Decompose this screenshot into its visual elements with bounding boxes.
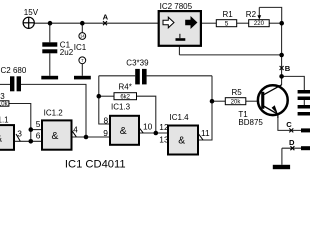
svg-text:2u2: 2u2	[60, 48, 74, 57]
svg-text:C2 680: C2 680	[1, 66, 27, 75]
svg-text:R5: R5	[232, 88, 243, 97]
svg-text:5: 5	[225, 20, 229, 27]
svg-text:&: &	[0, 133, 2, 144]
svg-text:A: A	[103, 13, 109, 22]
svg-text:10k: 10k	[0, 101, 9, 107]
svg-text:C: C	[286, 120, 292, 129]
svg-text:12: 12	[159, 122, 169, 132]
svg-text:13: 13	[159, 134, 169, 144]
svg-text:IC1.4: IC1.4	[170, 113, 190, 122]
svg-text:14: 14	[80, 34, 85, 39]
svg-text:&: &	[178, 136, 185, 147]
svg-text:10: 10	[143, 121, 153, 131]
svg-text:6: 6	[36, 131, 41, 141]
svg-text:9: 9	[103, 128, 108, 138]
svg-text:IC1: IC1	[74, 43, 87, 52]
svg-text:15V: 15V	[24, 8, 39, 17]
svg-text:D: D	[289, 138, 295, 147]
svg-text:220: 220	[254, 21, 265, 27]
svg-text:&: &	[52, 131, 59, 142]
svg-text:IC1.1: IC1.1	[0, 116, 9, 125]
svg-text:IC1.2: IC1.2	[44, 109, 64, 118]
svg-text:20k: 20k	[231, 99, 242, 105]
svg-text:6k2: 6k2	[120, 94, 130, 100]
svg-text:IC2 7805: IC2 7805	[160, 2, 193, 11]
svg-text:IC1.3: IC1.3	[111, 103, 131, 112]
svg-text:IC1 CD4011: IC1 CD4011	[65, 159, 126, 171]
svg-text:BD875: BD875	[238, 118, 263, 127]
svg-text:R1: R1	[223, 10, 234, 19]
svg-text:8: 8	[104, 115, 109, 125]
svg-text:5: 5	[36, 119, 41, 129]
svg-text:R3: R3	[0, 92, 5, 101]
svg-text:R2: R2	[246, 10, 257, 19]
svg-text:11: 11	[201, 128, 210, 138]
svg-text:&: &	[120, 126, 127, 137]
svg-text:B: B	[285, 64, 291, 73]
svg-text:R4*: R4*	[119, 83, 132, 92]
svg-text:C3*39: C3*39	[126, 58, 149, 67]
